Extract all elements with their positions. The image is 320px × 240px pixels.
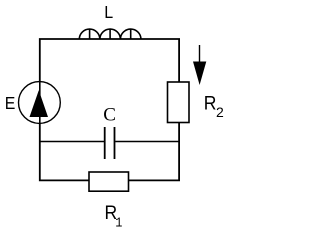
wire: middle capacitor branch right segment xyxy=(115,141,179,143)
svg-text:C: C xyxy=(103,104,116,125)
svg-text:R: R xyxy=(204,92,217,114)
resistor R1 xyxy=(89,172,129,191)
svg-text:1: 1 xyxy=(115,215,122,229)
wire: outer loop frame xyxy=(40,39,179,180)
voltage source E xyxy=(19,82,61,124)
svg-text:L: L xyxy=(104,2,113,22)
svg-text:2: 2 xyxy=(216,104,224,120)
svg-text:E: E xyxy=(5,93,16,113)
current arrow xyxy=(193,45,206,85)
inductor L xyxy=(79,29,141,39)
capacitor C xyxy=(105,127,115,159)
resistor R2 xyxy=(168,82,190,123)
wire: middle capacitor branch left segment xyxy=(40,141,104,143)
